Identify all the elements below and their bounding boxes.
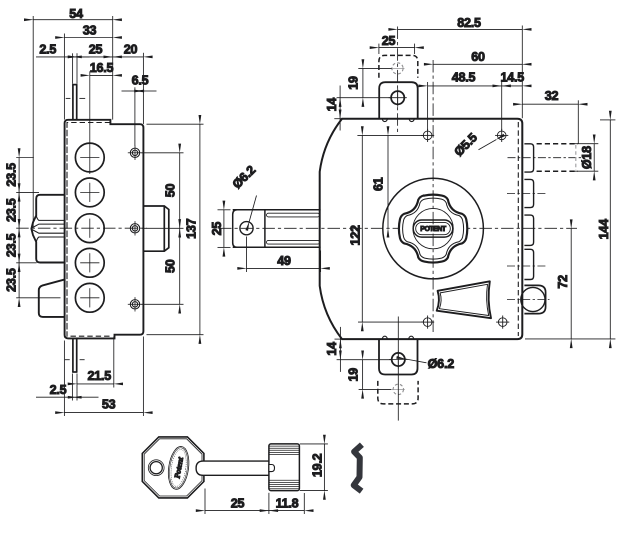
rod top centerline dashes bbox=[66, 97, 86, 99]
key shaft bbox=[196, 461, 269, 475]
cross knob inner line bbox=[403, 198, 464, 259]
logo pill inner bbox=[416, 222, 451, 234]
svg-text:53: 53 bbox=[102, 397, 116, 411]
svg-text:48.5: 48.5 bbox=[452, 70, 476, 84]
cross knob outer bbox=[399, 195, 467, 263]
dimension 14 (bottom) bbox=[335, 327, 392, 372]
dimension 2.5 top bbox=[36, 53, 90, 84]
svg-text:60: 60 bbox=[471, 50, 485, 64]
label Ø6.2 with leader bbox=[249, 196, 256, 222]
svg-text:32: 32 bbox=[545, 89, 559, 103]
dimension 21.5 bbox=[77, 337, 114, 388]
svg-text:6.5: 6.5 bbox=[132, 74, 149, 88]
svg-text:Ø6.2: Ø6.2 bbox=[428, 357, 455, 371]
screw hole middle bbox=[130, 224, 139, 233]
svg-text:25: 25 bbox=[210, 222, 224, 236]
svg-text:50: 50 bbox=[163, 184, 177, 198]
side flap 1 bbox=[524, 144, 533, 172]
hidden faceplate edge (dashed, near right edge) bbox=[517, 122, 519, 336]
svg-text:25: 25 bbox=[382, 34, 396, 48]
dimension 32 bbox=[522, 100, 578, 143]
dimension 25 (key) bbox=[205, 489, 269, 515]
svg-text:25: 25 bbox=[231, 496, 245, 510]
side flap 4 bbox=[524, 249, 533, 279]
dimension 53 bbox=[64, 337, 143, 417]
deadbolt (bottom right) bbox=[524, 285, 545, 313]
dimension 19.2 bbox=[300, 444, 328, 491]
bottom tab centerline bbox=[397, 317, 399, 421]
svg-text:72: 72 bbox=[556, 275, 570, 289]
dimension 54 bbox=[33, 16, 113, 227]
dimension 16.5 bbox=[90, 74, 113, 76]
svg-text:25: 25 bbox=[89, 43, 103, 57]
placeholder groups bbox=[5, 7, 204, 416]
bit ribs bottom bbox=[269, 480, 299, 488]
svg-text:14.5: 14.5 bbox=[501, 70, 525, 84]
label diameter 6.2 with leader bbox=[406, 359, 427, 363]
svg-text:137: 137 bbox=[184, 218, 198, 239]
svg-text:49: 49 bbox=[277, 254, 291, 268]
top tab hole bbox=[391, 91, 404, 104]
svg-text:50: 50 bbox=[163, 259, 177, 273]
dimension 14 (top) bbox=[334, 86, 344, 131]
screw cross bottom-right bbox=[496, 316, 509, 329]
svg-text:20: 20 bbox=[124, 43, 138, 57]
head logo oval bbox=[166, 445, 192, 491]
top dashed hole bbox=[391, 63, 405, 74]
dimension 25 top bbox=[77, 56, 113, 58]
svg-text:14: 14 bbox=[325, 342, 339, 356]
dimension 25 (cylinder height) bbox=[218, 210, 231, 248]
bit ribs top bbox=[269, 446, 299, 454]
svg-text:54: 54 bbox=[69, 7, 83, 21]
svg-text:21.5: 21.5 bbox=[87, 369, 111, 383]
screw cross top-left bbox=[421, 129, 434, 142]
lock case body (side view) bbox=[65, 120, 144, 339]
dimension 122 bbox=[357, 135, 423, 322]
screw hole bottom bbox=[130, 300, 139, 309]
svg-text:16.5: 16.5 bbox=[90, 61, 114, 75]
svg-text:19: 19 bbox=[347, 76, 361, 90]
dimension 19 (bottom) bbox=[359, 360, 392, 390]
top tab alternate position (dashed) bbox=[379, 55, 418, 77]
deadbolt centerline bbox=[507, 299, 550, 301]
svg-text:19: 19 bbox=[346, 368, 360, 382]
bottom tab base ears bbox=[382, 336, 413, 339]
svg-text:POTENT: POTENT bbox=[420, 226, 447, 233]
dimension 60 bbox=[433, 63, 522, 65]
svg-text:Ø18: Ø18 bbox=[580, 146, 594, 169]
lock body (front view) bbox=[320, 119, 523, 339]
dimension 25 (tab) bbox=[379, 44, 415, 54]
tab centerline bbox=[397, 27, 399, 136]
screw cross bottom-left bbox=[421, 316, 434, 329]
dimension 20 bbox=[113, 53, 144, 124]
svg-text:82.5: 82.5 bbox=[457, 16, 481, 30]
dimension 72 bbox=[570, 229, 572, 339]
plate hole bbox=[240, 222, 253, 235]
side flap 3 bbox=[524, 215, 533, 245]
top tab base ears bbox=[382, 119, 414, 122]
dimension 19 (top tab) bbox=[337, 68, 392, 97]
top mounting tab bbox=[379, 82, 418, 118]
flap centerlines bbox=[507, 158, 583, 266]
svg-text:33: 33 bbox=[83, 24, 97, 38]
dimension 82.5 bbox=[398, 26, 523, 119]
screw cross ticks bbox=[128, 146, 142, 312]
dimension 14.5 bbox=[502, 85, 523, 87]
svg-text:19.2: 19.2 bbox=[310, 453, 324, 477]
faceplate hidden edge (dashed) bbox=[67, 123, 110, 337]
svg-text:23.5: 23.5 bbox=[5, 198, 19, 222]
dimension chain 23.5 x4 bbox=[16, 158, 60, 298]
hole circles column bbox=[75, 143, 104, 312]
key bit body bbox=[269, 444, 300, 491]
key profile cross-section (solid) bbox=[354, 445, 362, 492]
barrel groove upper bbox=[267, 213, 320, 217]
svg-text:23.5: 23.5 bbox=[5, 268, 19, 292]
cylinder axis centerline bbox=[219, 227, 577, 229]
screw hole top bbox=[130, 148, 139, 157]
dimension 50 upper bbox=[142, 153, 184, 229]
spindle rod bottom bbox=[72, 339, 77, 373]
bottom mounting tab bbox=[379, 339, 418, 374]
key head octagon inner bbox=[144, 439, 202, 496]
svg-text:61: 61 bbox=[372, 177, 386, 191]
bit stop lug bbox=[269, 465, 275, 472]
barrel groove lower bbox=[267, 240, 320, 244]
svg-text:144: 144 bbox=[597, 219, 611, 240]
logo pill outer bbox=[413, 220, 453, 237]
keyhole cover (wedge) bbox=[437, 281, 491, 318]
label diameter 5.5 with leader bbox=[479, 140, 497, 150]
escutcheon circle bbox=[383, 178, 484, 279]
dimension 2.5 bottom bbox=[36, 374, 99, 401]
svg-text:2.5: 2.5 bbox=[39, 43, 56, 57]
knob hub circle bbox=[413, 208, 453, 248]
dimension diameter 18 bbox=[574, 144, 598, 172]
svg-text:14: 14 bbox=[325, 98, 339, 112]
key head hole bbox=[148, 460, 164, 476]
svg-text:23.5: 23.5 bbox=[5, 233, 19, 257]
dimension 137 bbox=[147, 124, 204, 335]
svg-text:11.8: 11.8 bbox=[276, 496, 299, 510]
main horizontal centerline bbox=[16, 227, 147, 229]
rod bottom centerline dashes bbox=[65, 359, 85, 361]
dimension 144 bbox=[525, 120, 615, 339]
dimension 33 bbox=[64, 34, 112, 120]
latch bolt (right side) bbox=[143, 206, 168, 251]
dimension 6.5 bbox=[122, 87, 157, 146]
turn knob (upper left) bbox=[31, 195, 64, 263]
dimension 48.5 bbox=[428, 82, 502, 131]
key head octagon outer bbox=[142, 437, 204, 498]
bottom tab hole bbox=[392, 353, 405, 366]
svg-text:122: 122 bbox=[349, 225, 363, 246]
side flap 2 bbox=[524, 179, 533, 207]
knob vertical centerline bbox=[432, 60, 434, 332]
pump cylinder barrel bbox=[233, 210, 321, 248]
deadbolt cylinder bbox=[521, 287, 545, 311]
dimension 61 bbox=[387, 135, 389, 228]
lever knob (lower left) bbox=[39, 279, 65, 317]
dimension 50 lower bbox=[142, 228, 184, 304]
dimension 49 bbox=[247, 237, 321, 273]
circle center cross ticks bbox=[80, 71, 99, 307]
cylinder mounting plate bbox=[233, 210, 265, 248]
bottom dashed hole bbox=[392, 384, 405, 394]
screw cross top-right bbox=[495, 129, 508, 142]
bottom tab alternate position (dashed) bbox=[378, 381, 418, 404]
svg-text:23.5: 23.5 bbox=[5, 163, 19, 187]
spindle rod top bbox=[72, 84, 77, 119]
dimension 11.8 bbox=[269, 493, 304, 514]
cylinder hole rear (dashed rect) bbox=[537, 144, 578, 172]
